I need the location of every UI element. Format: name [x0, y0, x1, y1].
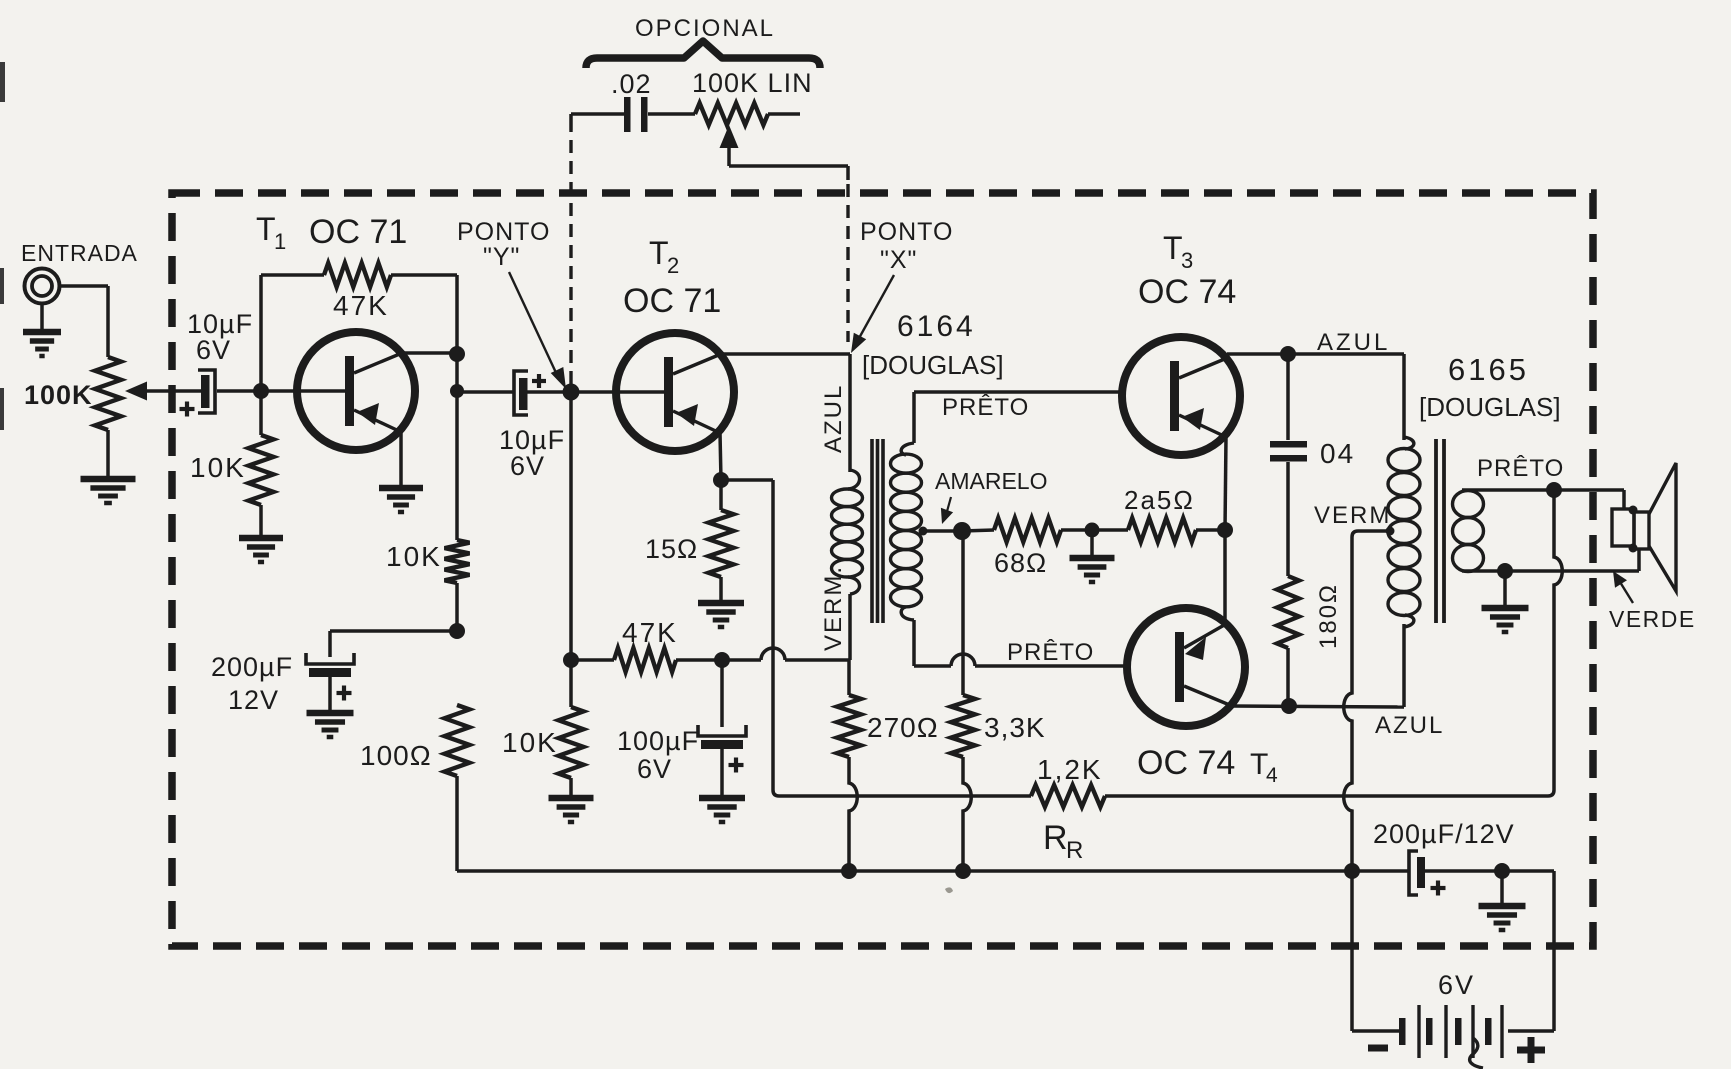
svg-text:100K: 100K: [24, 380, 93, 410]
transformer 6164 primary coil (AZUL/VERM): [848, 470, 860, 489]
svg-text:47K: 47K: [333, 290, 389, 321]
capacitor C1 10µF 6V (input coupling): [201, 375, 210, 408]
ground (supply): [1500, 871, 1504, 905]
node decoupling junction: [449, 623, 465, 639]
resistor 3.3K (tap to rail): [961, 531, 965, 695]
ground (100µF 6V): [699, 795, 745, 802]
node PRETO (speaker hot): [1546, 482, 1562, 498]
wiper arrow of 100K pot: [141, 389, 202, 393]
T2 collector wire to AZUL corner: [721, 352, 850, 356]
resistor 1.2K RR (feedback): [779, 794, 1031, 798]
6165 primary center tap VERM: [1386, 527, 1395, 536]
wire PONTO Y down to bias junction: [569, 392, 573, 660]
svg-text:47K: 47K: [622, 617, 678, 648]
wire node to C2: [457, 390, 514, 394]
ground (15Ω): [698, 600, 744, 607]
svg-text:2: 2: [667, 253, 679, 278]
wire 6165 secondary bottom to speaker: [1462, 569, 1639, 573]
wiper arrow 100K LIN: [720, 125, 739, 148]
wire C2 to T2 base: [527, 390, 664, 394]
ground (200µF 12V): [307, 710, 354, 717]
dashed optional wire down to PONTO X: [846, 184, 849, 342]
node AZUL (T3 collector): [1280, 346, 1296, 362]
svg-text:6165: 6165: [1448, 352, 1529, 387]
resistor 270Ω (VERM to rail): [847, 660, 851, 695]
bottom supply rail: [457, 869, 1410, 873]
wire wiper to PONTO X: [729, 164, 848, 168]
svg-text:T: T: [1163, 230, 1183, 266]
scan speck: [945, 887, 953, 893]
svg-text:2a5Ω: 2a5Ω: [1124, 485, 1195, 515]
svg-text:100µF: 100µF: [617, 726, 699, 756]
transistor T1 OC71: [297, 332, 415, 450]
wire AZUL node down through .04 cap: [1286, 354, 1290, 440]
svg-text:6164: 6164: [897, 310, 976, 343]
ground (100K pot): [81, 476, 136, 483]
ground (10K T2 bias): [549, 795, 594, 802]
resistor 10K (T1 base bias): [259, 391, 263, 435]
wire PRETO node down to feedback RR: [1548, 490, 1562, 796]
svg-text:200µF/12V: 200µF/12V: [1373, 819, 1515, 849]
node T1 collector: [449, 346, 465, 362]
node coupling takeoff: [450, 384, 464, 398]
node 68Ω ground junction: [1085, 523, 1100, 538]
svg-text:R: R: [1043, 819, 1068, 857]
input jack ENTRADA: [25, 269, 60, 304]
node rail 3.3K: [955, 863, 971, 879]
svg-text:PONTO: PONTO: [860, 218, 953, 246]
resistor 180Ω: [1277, 576, 1299, 648]
svg-text:R: R: [1066, 837, 1083, 864]
wire rail to battery minus: [1350, 871, 1354, 1031]
dashed enclosure border: [172, 193, 1593, 946]
svg-text:270Ω: 270Ω: [867, 712, 939, 743]
svg-text:1: 1: [274, 229, 286, 254]
capacitor 100µF 6V (T2 bias bypass): [720, 660, 724, 727]
resistor 10K (T2 bias lower): [569, 660, 573, 707]
svg-text:68Ω: 68Ω: [994, 548, 1047, 578]
svg-text:6V: 6V: [1438, 970, 1475, 1000]
potentiometer 100K (volume): [95, 357, 121, 430]
wire junction to T4 emitter: [1223, 530, 1227, 624]
wire .04 to 180Ω: [1286, 462, 1290, 576]
node T2 emitter: [713, 472, 729, 488]
node bias junction left: [563, 652, 579, 668]
svg-text:10K: 10K: [502, 727, 558, 758]
node T4 collector: [1281, 698, 1297, 714]
transformer 6165 core: [1434, 439, 1438, 623]
T2 emitter wire: [720, 433, 721, 480]
scan edge marks: [0, 62, 5, 102]
svg-text:AZUL: AZUL: [820, 384, 847, 453]
svg-text:12V: 12V: [228, 685, 279, 715]
T1 collector wire: [402, 351, 457, 355]
resistor 100Ω: [445, 705, 470, 776]
transistor T3 OC74: [1122, 337, 1240, 455]
svg-text:.02: .02: [611, 69, 652, 99]
svg-text:100K LIN: 100K LIN: [692, 68, 813, 98]
node T1 base: [253, 383, 269, 399]
svg-text:OC 71: OC 71: [309, 213, 407, 251]
svg-text:OC 74: OC 74: [1138, 273, 1236, 311]
svg-text:T: T: [649, 235, 669, 271]
wire up to 6165 primary bottom: [1402, 624, 1406, 707]
battery minus sign: [1368, 1045, 1388, 1052]
wire 6164 secondary bottom to T4 base (PRETO) with hop: [914, 664, 951, 668]
T1 emitter wire and ground: [399, 432, 403, 487]
svg-text:ENTRADA: ENTRADA: [21, 240, 138, 266]
wire junction to 200µF cap: [330, 629, 457, 633]
transformer 6164 core: [870, 439, 874, 623]
transformer 6164 secondary coil: [912, 392, 916, 443]
battery 6V: [1399, 1018, 1406, 1045]
6164 center tap AMARELO: [919, 527, 928, 536]
node bias junction right: [714, 652, 730, 668]
T3 emitter wire down to junction: [1225, 437, 1226, 530]
wire 6165 secondary top (PRETO) to speaker: [1462, 488, 1624, 492]
wire T2 emitter to feedback line: [721, 478, 773, 482]
battery squiggle: [1470, 1038, 1483, 1068]
node secondary ground junction: [1497, 563, 1513, 579]
node PONTO Y: [563, 384, 580, 401]
capacitor C2 10µF 6V (interstage coupling): [514, 371, 528, 415]
svg-text:3,3K: 3,3K: [984, 712, 1046, 743]
arrow AMARELO to tap: [946, 497, 951, 515]
potentiometer 100K LIN (optional): [695, 103, 768, 125]
resistor 10K (T1 collector load): [445, 540, 470, 583]
transistor T4 OC74: [1127, 608, 1245, 726]
capacitor .04: [1270, 441, 1307, 448]
svg-text:6V: 6V: [196, 335, 231, 365]
svg-text:PONTO: PONTO: [457, 218, 550, 246]
resistor 2a5Ω: [1092, 528, 1128, 532]
wire rail to battery plus: [1552, 871, 1556, 1031]
svg-text:15Ω: 15Ω: [645, 534, 698, 564]
svg-text:VERDE: VERDE: [1609, 606, 1696, 632]
svg-text:6V: 6V: [637, 754, 672, 784]
resistor 68Ω: [962, 530, 994, 531]
wire C1 to T1 base: [217, 389, 345, 393]
capacitor 200µF 12V (decoupling): [306, 653, 354, 664]
svg-text:VERM: VERM: [1314, 502, 1391, 529]
svg-text:180Ω: 180Ω: [1315, 583, 1342, 649]
wire left of .02 cap: [569, 114, 573, 130]
wire collector chain down: [455, 354, 459, 540]
svg-text:[DOUGLAS]: [DOUGLAS]: [1419, 392, 1561, 422]
svg-text:4: 4: [1266, 764, 1278, 787]
arrow to PONTO X corner: [858, 275, 894, 340]
transformer 6165 primary coil: [1402, 354, 1406, 440]
svg-text:OC 71: OC 71: [623, 282, 721, 320]
T3 collector wire to AZUL node: [1227, 352, 1404, 356]
node rail VERM: [841, 863, 857, 879]
node emitter junction (T3/T4): [1217, 522, 1233, 538]
capacitor .02 (optional): [624, 97, 631, 132]
ground (6165 secondary): [1503, 571, 1507, 607]
svg-text:10K: 10K: [386, 541, 442, 572]
wire bias junction to VERM node with hop: [722, 658, 761, 662]
svg-text:VERM.: VERM.: [820, 565, 847, 651]
wire .02 to 100K LIN pot: [648, 112, 695, 116]
svg-text:AZUL: AZUL: [1317, 329, 1390, 356]
resistor 47K (T2 bias): [571, 658, 614, 662]
svg-text:AZUL: AZUL: [1375, 712, 1444, 739]
T4 collector wire to AZUL (6165 primary bottom): [1232, 706, 1404, 707]
svg-text:PRÊTO: PRÊTO: [942, 394, 1029, 421]
svg-text:100Ω: 100Ω: [360, 740, 432, 771]
battery plus sign: [1517, 1047, 1545, 1054]
wire jack to potentiometer: [58, 284, 108, 288]
svg-text:AMARELO: AMARELO: [935, 468, 1047, 494]
wire 6164 secondary top to T3 base (PRETO): [914, 390, 1122, 394]
transformer 6165 secondary coil: [1453, 491, 1484, 518]
transistor T2 OC71: [616, 333, 734, 451]
svg-text:"Y": "Y": [483, 243, 520, 271]
resistor 47K (T1 feedback): [259, 275, 263, 391]
svg-text:3: 3: [1181, 248, 1193, 273]
node rail ground: [1494, 863, 1510, 879]
svg-text:OC 74: OC 74: [1137, 744, 1235, 782]
svg-text:"X": "X": [880, 246, 917, 274]
svg-text:10K: 10K: [190, 452, 246, 483]
arrow to PONTO Y node: [509, 272, 558, 377]
svg-text:PRÊTO: PRÊTO: [1007, 639, 1094, 666]
svg-text:PRÊTO: PRÊTO: [1477, 455, 1564, 482]
svg-text:[DOUGLAS]: [DOUGLAS]: [862, 350, 1004, 380]
overbrace OPCIONAL: [586, 41, 820, 68]
node rail battery minus: [1344, 863, 1360, 879]
resistor 15Ω (T2 emitter): [719, 480, 723, 510]
arrow VERDE to wire: [1620, 582, 1633, 603]
speaker: [1612, 509, 1634, 546]
ground (input jack): [23, 329, 61, 336]
ground (10K T1 bias): [239, 535, 283, 542]
svg-text:T: T: [256, 211, 276, 247]
dashed optional wire down to PONTO Y: [569, 130, 572, 384]
svg-text:04: 04: [1320, 438, 1355, 469]
svg-text:1,2K: 1,2K: [1037, 754, 1103, 785]
svg-text:6V: 6V: [510, 451, 545, 481]
capacitor 200µF/12V (supply filter): [1409, 851, 1418, 895]
svg-text:200µF: 200µF: [211, 652, 293, 682]
ground (68Ω): [1090, 530, 1094, 557]
